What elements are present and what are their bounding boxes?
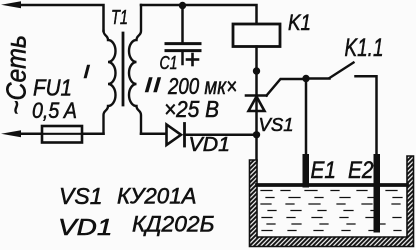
node top (cap junction) xyxy=(179,2,186,9)
thyristor VS1 xyxy=(255,71,258,135)
tank walls xyxy=(250,156,414,247)
capacitor C1 xyxy=(181,6,184,43)
plus polarity mark xyxy=(187,54,198,65)
svg-text:VD1: VD1 xyxy=(189,133,231,156)
liquid surface xyxy=(257,183,407,187)
svg-text:K1.1: K1.1 xyxy=(345,34,384,62)
wire top rail secondary to relay xyxy=(141,5,257,24)
svg-text:КД202Б: КД202Б xyxy=(132,212,215,237)
electrode E2 xyxy=(374,154,381,233)
svg-text:~Сеть: ~Сеть xyxy=(1,35,32,115)
svg-text:КУ201А: КУ201А xyxy=(117,184,197,209)
svg-text:VS1: VS1 xyxy=(59,183,103,209)
svg-text:II: II xyxy=(144,74,161,97)
wire bottom-left rail xyxy=(14,133,104,136)
electrode E1 xyxy=(303,154,310,188)
transformer T1 primary winding I xyxy=(104,31,116,134)
wire to contact K1.1 xyxy=(306,77,330,80)
mains arrow bottom xyxy=(1,130,21,137)
svg-text:×25 В: ×25 В xyxy=(164,96,219,122)
fuse FU1 xyxy=(42,126,82,143)
svg-text:T1: T1 xyxy=(111,6,128,29)
mains arrow top xyxy=(1,1,21,8)
gate wire xyxy=(267,79,307,96)
svg-text:VD1: VD1 xyxy=(58,214,113,240)
contact K1.1 fixed side xyxy=(356,76,377,156)
svg-text:E2: E2 xyxy=(348,157,374,184)
svg-text:C1: C1 xyxy=(160,52,178,73)
transformer core xyxy=(122,33,125,105)
wire node to tank wall xyxy=(255,135,258,161)
svg-text:K1: K1 xyxy=(288,10,311,35)
svg-text:VS1: VS1 xyxy=(259,114,294,135)
node below relay xyxy=(253,67,260,74)
wire relay to node xyxy=(255,47,258,72)
svg-text:E1: E1 xyxy=(311,157,337,184)
node VD1/VS1 xyxy=(253,131,260,138)
svg-text:FU1: FU1 xyxy=(33,75,72,101)
svg-text:0,5 A: 0,5 A xyxy=(32,98,77,123)
liquid dashes xyxy=(261,191,402,231)
transformer T1 secondary winding II xyxy=(129,5,141,134)
relay K1 xyxy=(233,24,280,47)
contact K1.1 blade xyxy=(330,63,354,79)
diode VD1 xyxy=(141,133,166,136)
wire to electrode E1 xyxy=(305,79,308,158)
wire top-left rail xyxy=(14,5,104,31)
svg-text:I: I xyxy=(83,62,90,82)
node gate / E1 xyxy=(302,75,309,82)
